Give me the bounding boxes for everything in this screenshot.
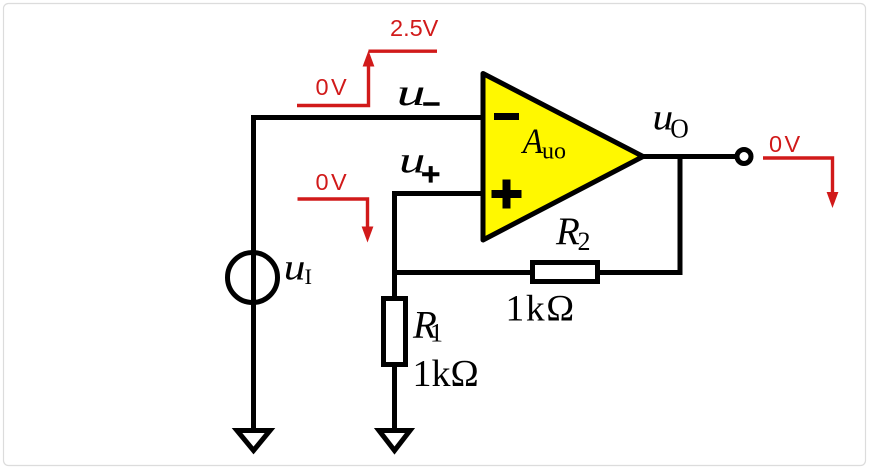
svg-text:1: 1	[430, 319, 443, 348]
svg-text:uo: uo	[542, 138, 566, 164]
svg-text:O: O	[670, 113, 689, 143]
svg-text:2.5V: 2.5V	[390, 15, 439, 41]
svg-text:u: u	[284, 247, 306, 288]
svg-text:u: u	[399, 141, 425, 182]
svg-text:A: A	[521, 121, 544, 161]
svg-text:0V: 0V	[316, 169, 350, 195]
svg-text:1kΩ: 1kΩ	[506, 289, 576, 330]
svg-text:I: I	[305, 264, 313, 289]
svg-text:2: 2	[578, 227, 591, 256]
svg-text:0V: 0V	[769, 131, 803, 157]
svg-text:1kΩ: 1kΩ	[413, 353, 479, 395]
svg-text:0V: 0V	[316, 74, 350, 100]
svg-text:u: u	[397, 72, 426, 114]
svg-text:R: R	[555, 210, 580, 253]
